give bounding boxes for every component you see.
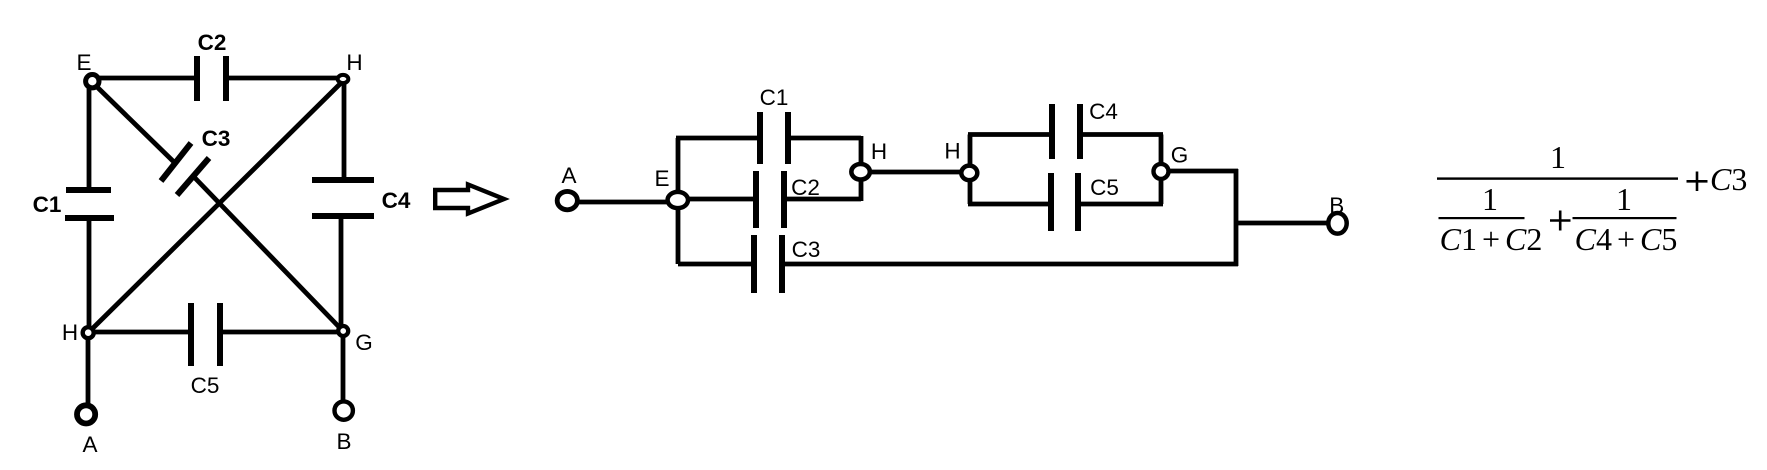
wire C3 rail (C3 to right corner) <box>782 262 1238 267</box>
svg-text:C2: C2 <box>791 175 820 200</box>
capacitor C3 <box>754 235 782 293</box>
svg-text:C1+C2: C1+C2 <box>1440 221 1543 257</box>
terminal A <box>77 405 95 423</box>
svg-text:G: G <box>1171 143 1189 168</box>
formula small fraction bar 1 <box>1439 217 1525 219</box>
svg-text:C4+C5: C4+C5 <box>1575 221 1678 257</box>
wire to terminal B <box>1236 221 1328 226</box>
wire top rail left group (C1 to right side) <box>788 136 861 141</box>
wire left edge lower (C1 to H) <box>87 218 92 330</box>
wire diagonal E to C3 <box>93 83 176 164</box>
wire H to H <box>862 170 969 175</box>
wire top rail right group (C4 to G side) <box>1080 132 1163 137</box>
wire top edge right (C2 to H) <box>226 76 342 81</box>
node E <box>86 75 99 88</box>
node E (middle) <box>668 192 688 208</box>
wire left edge upper (E to C1) <box>87 83 92 190</box>
svg-text:C1: C1 <box>760 85 789 110</box>
svg-text:A: A <box>82 432 97 457</box>
wire C2 rail (C2 to right side) <box>784 197 861 202</box>
capacitor C1 <box>760 112 788 164</box>
svg-text:H: H <box>944 139 960 164</box>
formula plus of + C3 term <box>1687 172 1708 192</box>
svg-text:H: H <box>62 320 78 345</box>
node G <box>338 326 348 336</box>
wire top rail left group (E side to C1) <box>676 136 760 141</box>
capacitor C2 <box>197 56 226 101</box>
terminal B (middle) <box>1328 213 1346 234</box>
wire top edge left (E to C2) <box>95 76 197 81</box>
arrow (block arrow pointing right) <box>435 185 504 214</box>
wire bottom edge right (C5 to G) <box>220 330 341 335</box>
capacitor C5 <box>191 303 220 366</box>
node H top-right <box>338 75 349 83</box>
svg-text:H: H <box>346 50 362 75</box>
wire left vertical through E <box>676 138 681 264</box>
wire G to terminal B <box>341 333 346 401</box>
wire right vertical down to C3 rail <box>1234 169 1239 266</box>
wire bottom rail right group (C5 to G side) <box>1078 202 1163 207</box>
svg-text:C5: C5 <box>191 373 220 398</box>
svg-text:C3: C3 <box>1710 161 1747 197</box>
wire H to terminal A <box>86 335 91 404</box>
svg-text:G: G <box>355 330 373 355</box>
svg-text:A: A <box>561 163 576 188</box>
wire C3 rail (E side to C3) <box>678 262 754 267</box>
wire top rail right group (H to C4) <box>968 132 1052 137</box>
formula small fraction bar 2 <box>1573 217 1677 219</box>
svg-text:C4: C4 <box>382 188 411 213</box>
svg-text:C4: C4 <box>1089 99 1118 124</box>
wire right vertical left group <box>859 136 864 201</box>
capacitor C4 <box>1052 104 1080 159</box>
svg-text:C1: C1 <box>33 192 62 217</box>
wire right vertical right group <box>1159 135 1164 205</box>
capacitor C5 <box>1051 173 1078 231</box>
svg-text:B: B <box>336 429 351 454</box>
svg-text:C5: C5 <box>1090 175 1119 200</box>
svg-text:C3: C3 <box>202 126 231 151</box>
capacitor C1 <box>65 190 114 218</box>
formula plus between fractions <box>1550 211 1571 231</box>
terminal B <box>335 401 353 419</box>
wire diagonal C3 to G <box>195 178 341 329</box>
node H bottom-left <box>83 327 94 338</box>
node G (middle) <box>1154 164 1169 179</box>
wire A to E <box>577 200 672 205</box>
svg-text:E: E <box>654 166 669 191</box>
wire diagonal H to H <box>90 82 342 331</box>
wire left vertical right group <box>968 135 973 205</box>
svg-text:C2: C2 <box>198 30 227 55</box>
capacitor C4 <box>312 180 374 216</box>
wire bottom edge left (H to C5) <box>90 330 191 335</box>
node H right (middle) <box>961 166 977 181</box>
wire right edge lower (C4 to G) <box>339 216 344 328</box>
terminal A (middle) <box>557 191 577 209</box>
wire right edge upper (H to C4) <box>342 82 347 180</box>
wire bottom rail right group (H to C5) <box>968 202 1051 207</box>
wire G to right corner <box>1161 169 1238 174</box>
node H left (middle) <box>851 164 870 180</box>
svg-text:1: 1 <box>1550 139 1566 175</box>
capacitor C3 (tilted plates) <box>161 143 209 195</box>
svg-text:C3: C3 <box>792 237 821 262</box>
formula main fraction bar <box>1437 177 1678 179</box>
svg-text:H: H <box>871 139 887 164</box>
svg-text:1: 1 <box>1482 181 1498 217</box>
capacitor C2 <box>756 171 784 228</box>
svg-text:E: E <box>76 50 91 75</box>
svg-text:1: 1 <box>1616 181 1632 217</box>
svg-text:B: B <box>1329 193 1344 218</box>
wire C2 rail (E to C2) <box>678 197 756 202</box>
